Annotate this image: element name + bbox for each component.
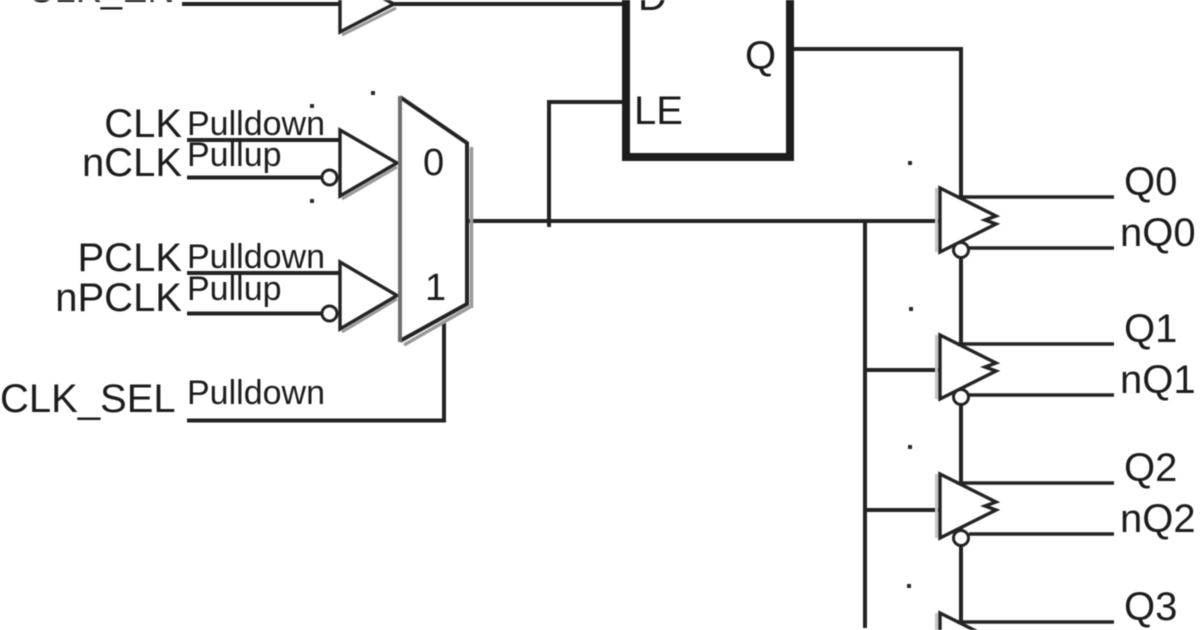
svg-text:0: 0 bbox=[423, 142, 444, 184]
wire nQ1 bbox=[969, 393, 1114, 397]
receiver A2 shadow bbox=[342, 299, 397, 332]
bubble nPCLK bbox=[322, 306, 337, 321]
wire Q3 bbox=[957, 620, 1114, 624]
svg-text:Q1: Q1 bbox=[1124, 307, 1177, 351]
wire Q enable vertical long (hidden under output buffers) bbox=[959, 47, 963, 622]
wire input stub buffer 2 bbox=[865, 368, 940, 372]
receiver A2 (PCLK/nPCLK) bbox=[340, 262, 397, 329]
wire CLK_EN to buffer bbox=[182, 2, 340, 6]
wire input stub buffer 3 bbox=[865, 508, 940, 512]
wire clock distribution vertical bbox=[863, 221, 867, 628]
wire latch LE horizontal bbox=[549, 100, 624, 104]
svg-text:Q0: Q0 bbox=[1124, 160, 1177, 204]
mux left edge (gray) bbox=[398, 96, 402, 342]
wire nQ2 bbox=[969, 532, 1114, 536]
wire buffer to latch D bbox=[394, 2, 625, 6]
svg-text:Q2: Q2 bbox=[1124, 446, 1177, 490]
output buffer B2 bbox=[937, 335, 1115, 405]
svg-text:1: 1 bbox=[425, 267, 446, 309]
bubble nQ2 bbox=[954, 531, 969, 546]
svg-text:Pullup: Pullup bbox=[187, 136, 282, 174]
svg-text:CLK_SEL: CLK_SEL bbox=[0, 377, 176, 421]
wire nQ0 bbox=[969, 246, 1114, 250]
wire Q0 bbox=[957, 195, 1114, 199]
wire CLK input bbox=[187, 138, 340, 142]
speck dots bbox=[310, 91, 913, 588]
svg-text:Q3: Q3 bbox=[1124, 585, 1177, 629]
svg-text:nQ0: nQ0 bbox=[1120, 211, 1196, 255]
output buffer B3 bbox=[937, 474, 1115, 546]
receiver A1 (CLK/nCLK) bbox=[340, 130, 397, 196]
buffer U1 (CLK_EN buffer) bbox=[340, 0, 394, 32]
svg-text:nCLK: nCLK bbox=[82, 141, 182, 185]
mux shadow right bbox=[470, 147, 474, 308]
wire mux output to buffers bbox=[467, 219, 940, 223]
output buffer B4 (clipped at bottom) bbox=[937, 613, 1115, 630]
svg-text:D: D bbox=[638, 0, 667, 19]
bubble nCLK bbox=[322, 170, 337, 185]
wire latch LE vertical bbox=[547, 100, 551, 227]
svg-text:Q: Q bbox=[745, 34, 776, 78]
bubble nQ0 bbox=[954, 243, 969, 258]
svg-text:Pulldown: Pulldown bbox=[187, 374, 325, 412]
wire nCLK input bbox=[187, 176, 322, 180]
svg-text:Pullup: Pullup bbox=[187, 270, 282, 308]
receiver A1 shadow bbox=[342, 167, 397, 199]
wire nPCLK input bbox=[187, 312, 322, 316]
wire CLK_SEL horizontal bbox=[187, 419, 446, 423]
bubble nQ1 bbox=[954, 390, 969, 405]
wire Q2 bbox=[957, 481, 1114, 485]
wire mux select vertical bbox=[442, 322, 446, 421]
mux M1 body bbox=[400, 97, 467, 341]
wire Q1 bbox=[957, 342, 1114, 346]
buffer U1 shadow bbox=[342, 8, 396, 35]
wire PCLK input bbox=[187, 271, 340, 275]
svg-text:nQ2: nQ2 bbox=[1120, 497, 1196, 541]
svg-text:CLK: CLK bbox=[104, 102, 182, 146]
mux M1 outline bbox=[400, 97, 467, 341]
output buffer B1 bbox=[937, 188, 1115, 258]
latch U2 (D/LE/Q latch) bbox=[626, 0, 790, 157]
svg-text:PCLK: PCLK bbox=[78, 236, 183, 280]
svg-text:nQ1: nQ1 bbox=[1120, 358, 1196, 402]
mux shadow bottom bbox=[404, 307, 470, 345]
svg-text:LE: LE bbox=[634, 89, 683, 133]
svg-text:CLK_EN: CLK_EN bbox=[27, 0, 175, 11]
wire latch Q output horizontal bbox=[792, 47, 963, 51]
svg-text:nPCLK: nPCLK bbox=[55, 276, 182, 320]
